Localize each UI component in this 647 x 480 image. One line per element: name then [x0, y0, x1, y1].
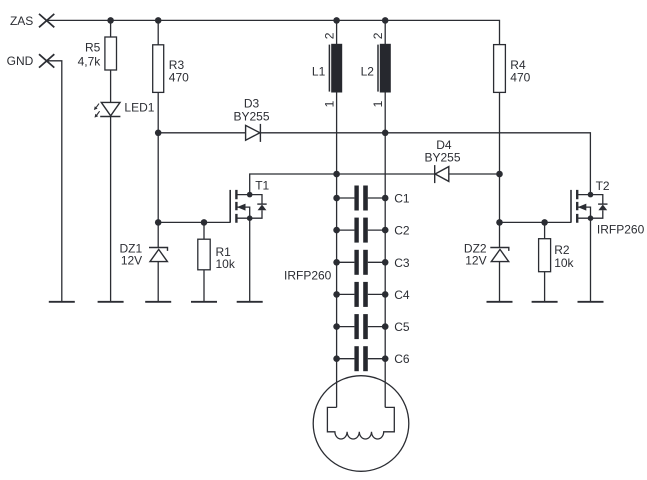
svg-text:BY255: BY255 — [424, 150, 460, 164]
inductor L2 — [361, 32, 391, 107]
svg-text:T2: T2 — [596, 179, 610, 193]
node rail-R5 — [107, 17, 114, 24]
resistor R4 — [494, 45, 531, 93]
svg-text:10k: 10k — [216, 257, 236, 271]
ground (R1) — [191, 301, 217, 303]
svg-text:IRFP260: IRFP260 — [597, 223, 645, 237]
svg-text:GND: GND — [7, 54, 34, 68]
svg-text:C1: C1 — [394, 192, 410, 206]
ground (T1 source) — [237, 301, 263, 303]
svg-text:C4: C4 — [394, 288, 410, 302]
wire top supply rail — [47, 20, 500, 44]
node R4 gate bus — [496, 219, 503, 226]
motor / work coil circle — [313, 376, 409, 472]
motor winding — [327, 407, 394, 439]
wire T2 source to ground — [590, 218, 592, 302]
wire R4 down to DZ2 — [499, 92, 501, 247]
capacitor C6 — [333, 346, 410, 371]
wire LED1 to ground — [110, 117, 112, 302]
wire gate bus right — [500, 221, 572, 223]
svg-text:12V: 12V — [121, 254, 142, 268]
wire R1 top — [203, 222, 205, 239]
svg-text:1: 1 — [371, 100, 385, 107]
wire DZ1 to ground — [157, 262, 159, 302]
terminal GND — [7, 54, 55, 68]
wire R2 to ground — [544, 272, 546, 302]
wire gate bus left — [158, 221, 230, 223]
wire DZ2 to ground — [499, 262, 501, 302]
svg-text:L1: L1 — [312, 65, 326, 79]
zener DZ1 — [120, 241, 168, 267]
wire rail to R3 — [157, 20, 159, 44]
wire L1 column (rail to motor) — [336, 20, 338, 407]
ground (R2) — [532, 301, 558, 303]
zener DZ2 — [464, 241, 509, 267]
svg-text:10k: 10k — [554, 256, 574, 270]
ground (LED1) — [98, 301, 124, 303]
diode D3 BY255 — [233, 97, 269, 142]
svg-text:C5: C5 — [394, 320, 410, 334]
wire R5 to LED1 — [110, 70, 112, 102]
wire R2 top — [544, 222, 546, 238]
wire L2 column (rail to motor) — [384, 20, 386, 407]
svg-text:BY255: BY255 — [233, 109, 269, 123]
svg-text:R5: R5 — [85, 40, 101, 54]
capacitor C5 — [333, 314, 410, 339]
node R2 top — [541, 219, 548, 226]
svg-text:470: 470 — [169, 70, 189, 84]
capacitor C2 — [333, 218, 410, 243]
resistor R1 — [198, 239, 236, 271]
svg-text:ZAS: ZAS — [10, 14, 33, 28]
wire R3 down to DZ1 — [157, 92, 159, 247]
svg-text:C3: C3 — [394, 256, 410, 270]
svg-text:2: 2 — [371, 32, 385, 39]
node rail-R3 — [155, 17, 162, 24]
resistor R5 — [78, 37, 117, 70]
node rail-L2 — [382, 17, 389, 24]
wire T1 source to ground — [249, 218, 251, 302]
ground (DZ2) — [487, 301, 513, 303]
node lower bus at R4 — [496, 171, 503, 178]
terminal ZAS — [10, 14, 54, 28]
capacitor C1 — [333, 186, 410, 211]
LED LED1 — [94, 101, 155, 118]
svg-text:T1: T1 — [255, 179, 269, 193]
svg-text:12V: 12V — [465, 254, 486, 268]
node upper bus at L2 — [382, 130, 389, 137]
inductor L1 — [312, 32, 342, 107]
ground (DZ1) — [145, 301, 171, 303]
svg-text:4,7k: 4,7k — [78, 54, 102, 68]
node R3-D3-gate — [155, 130, 162, 137]
wire R1 to ground — [203, 270, 205, 302]
capacitor C3 — [333, 250, 410, 275]
ground (T2 source) — [578, 301, 604, 303]
resistor R2 — [539, 239, 575, 272]
svg-text:C2: C2 — [394, 224, 410, 238]
node gate bus T1 — [155, 219, 162, 226]
wire lower cross bus (T1 drain to T2 gate) — [250, 174, 499, 195]
svg-text:1: 1 — [323, 100, 337, 107]
capacitor C4 — [333, 282, 410, 307]
node lower bus at L1 — [333, 171, 340, 178]
svg-text:C6: C6 — [394, 352, 410, 366]
svg-text:L2: L2 — [361, 65, 375, 79]
diode D4 BY255 — [424, 138, 460, 183]
node R1 top — [201, 219, 208, 226]
svg-text:470: 470 — [510, 70, 530, 84]
wire rail to R5 — [110, 20, 112, 37]
transistor T2 IRFP260 — [571, 179, 645, 237]
wire upper cross bus (T1 gate to T2 drain) — [158, 133, 590, 195]
transistor T1 IRFP260 — [230, 179, 331, 283]
svg-text:LED1: LED1 — [124, 101, 154, 115]
wire GND input down to ground — [47, 61, 62, 302]
svg-text:IRFP260: IRFP260 — [284, 269, 332, 283]
node rail-L1 — [333, 17, 340, 24]
resistor R3 — [153, 45, 189, 93]
svg-text:2: 2 — [323, 32, 337, 39]
ground (GND input) — [49, 301, 75, 303]
